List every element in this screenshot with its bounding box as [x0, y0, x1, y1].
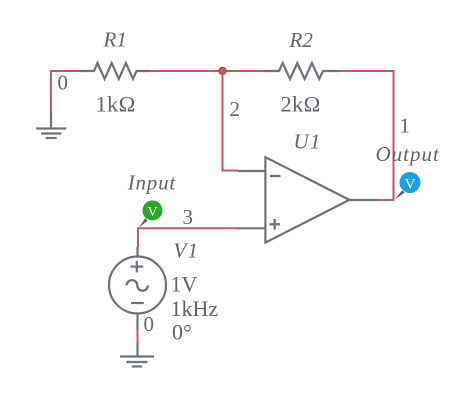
wire: junction down to inverting input [223, 71, 239, 171]
resistor R2 [265, 63, 339, 79]
wire: node 3 from input corner to op-amp [138, 228, 236, 247]
svg-text:1kHz: 1kHz [171, 296, 219, 321]
op-amp U1 triangle [265, 157, 349, 242]
probe Input pointer [139, 218, 148, 227]
svg-text:2: 2 [230, 97, 241, 121]
probe Output pointer [395, 190, 405, 199]
op-amp plus sign [270, 219, 281, 230]
ground (bottom) [120, 343, 154, 367]
svg-text:3: 3 [183, 205, 194, 229]
resistor R1 [80, 63, 150, 79]
source V1 top lead [136, 247, 138, 257]
source V1 plus sign [130, 261, 143, 273]
source V1 circle [109, 257, 166, 314]
svg-text:2kΩ: 2kΩ [281, 92, 321, 117]
svg-text:V1: V1 [174, 239, 200, 263]
svg-text:0°: 0° [172, 320, 192, 345]
svg-text:Output: Output [376, 142, 441, 166]
ground (top-left) [36, 112, 66, 138]
svg-text:U1: U1 [294, 130, 322, 154]
svg-text:0: 0 [58, 71, 69, 95]
source V1 minus sign [131, 302, 144, 304]
svg-text:V: V [147, 205, 157, 220]
svg-text:1kΩ: 1kΩ [96, 92, 136, 117]
svg-text:R1: R1 [103, 28, 127, 52]
svg-text:V: V [405, 177, 416, 193]
op-amp U1 input stub (inverting) [239, 170, 266, 172]
source V1 sine symbol [127, 280, 148, 291]
wire: R2 to right corner down to output [339, 71, 394, 200]
probe Output (blue) [400, 172, 421, 193]
junction node dot [219, 67, 226, 74]
probe Input (green) [143, 200, 163, 220]
source V1 bottom lead [136, 314, 138, 331]
wire: V1 to ground [137, 330, 139, 344]
wire: left vertical + top-left horizontal to R1 [51, 71, 80, 113]
op-amp U1 output stub [349, 199, 379, 201]
svg-text:1: 1 [400, 114, 411, 138]
op-amp minus sign [270, 175, 281, 177]
op-amp U1 input stub (non-inverting) [236, 227, 265, 229]
svg-text:Input: Input [127, 171, 177, 195]
svg-text:0: 0 [144, 312, 155, 336]
svg-text:1V: 1V [171, 272, 198, 297]
wire: R1 to junction to R2 [150, 70, 265, 72]
svg-text:R2: R2 [289, 28, 314, 52]
